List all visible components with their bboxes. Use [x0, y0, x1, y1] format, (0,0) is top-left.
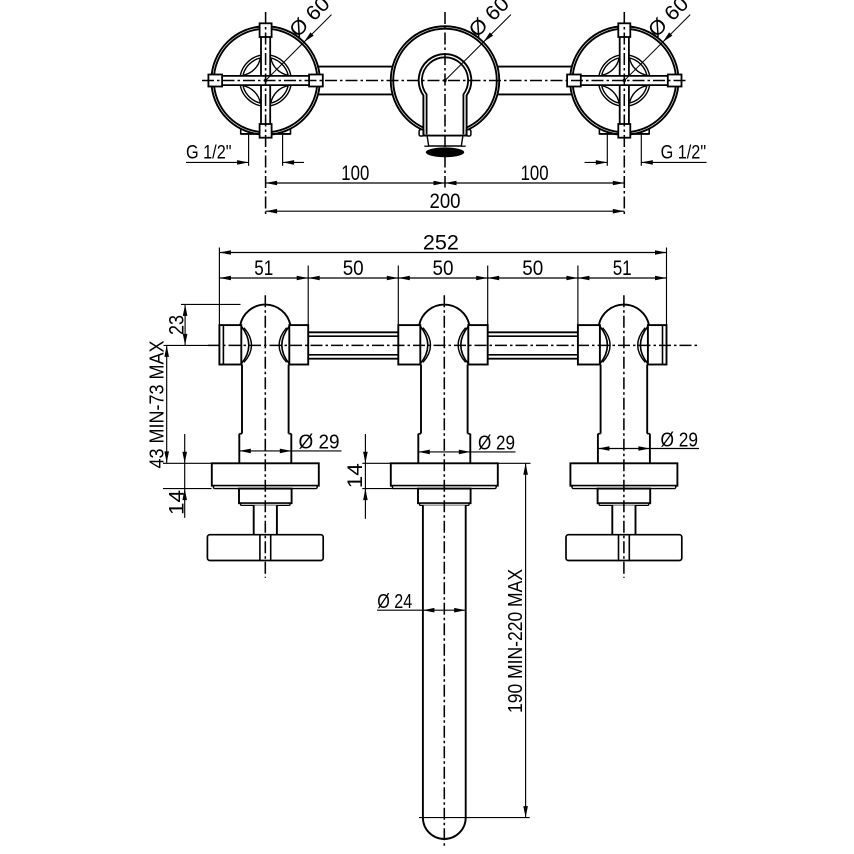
- right handle front spoke caps: [618, 23, 630, 37]
- right handle front handle petals: [630, 58, 648, 76]
- svg-text:200: 200: [430, 189, 461, 213]
- dimension 190 MIN-220 MAX: [498, 462, 531, 464]
- left valve hub: [239, 489, 292, 504]
- G 1/2 dimension right: [606, 135, 608, 166]
- right valve ball dome: [599, 305, 649, 326]
- dimension 14 left: [184, 434, 186, 518]
- left valve flange: [212, 463, 319, 485]
- svg-text:G 1/2": G 1/2": [186, 142, 232, 164]
- right handle front vertical spoke: [620, 36, 629, 125]
- lower view horizontal centerline: [164, 344, 209, 346]
- spout tube rounded end: [423, 818, 466, 839]
- dimension 100 left: [266, 182, 445, 184]
- spout escutcheon outer circle: [391, 26, 500, 135]
- right valve dia29 section: [598, 434, 650, 464]
- spout escutcheon inner circle: [393, 29, 497, 133]
- left valve handle bar side view: [207, 535, 323, 561]
- horizontal centerline front view: [202, 80, 688, 82]
- right valve shaft: [601, 365, 648, 434]
- right handle front handle ring inner: [601, 57, 647, 103]
- svg-text:G 1/2": G 1/2": [661, 142, 707, 164]
- diameter 60 leader right: [623, 79, 626, 82]
- connecting bar middle-right: [498, 66, 572, 68]
- svg-text:50: 50: [433, 256, 454, 280]
- spout tube inner walls: [422, 57, 468, 134]
- middle spout body fillets: [420, 326, 428, 364]
- middle spout body hub lip: [420, 503, 470, 505]
- svg-text:190 MIN-220 MAX: 190 MIN-220 MAX: [504, 569, 527, 713]
- middle spout body ball dome: [419, 305, 469, 326]
- left handle front vertical spoke: [261, 36, 270, 125]
- svg-text:51: 51: [613, 256, 632, 280]
- middle spout body flange: [391, 463, 498, 485]
- left handle front wall plate edge: [241, 133, 291, 135]
- dimension 43 MIN-73 MAX: [166, 345, 168, 463]
- svg-text:100: 100: [341, 161, 369, 185]
- dimension dia 29 middle: [418, 451, 515, 453]
- left valve ball dome: [240, 305, 290, 326]
- right handle front escutcheon outer circle: [570, 26, 679, 135]
- dimension 100 right: [445, 182, 624, 184]
- left flange extension lines: [163, 462, 212, 464]
- vertical centerline left handle: [265, 12, 267, 215]
- middle spout body shaft: [421, 365, 468, 434]
- right valve end cap seam: [662, 325, 664, 364]
- dimension 23: [181, 303, 241, 305]
- right handle front horizontal spoke: [580, 76, 669, 85]
- left handle front spoke caps: [260, 23, 272, 37]
- right handle front escutcheon inner circle: [573, 29, 677, 133]
- left valve stem: [254, 505, 277, 534]
- dimension dia 24: [377, 609, 466, 611]
- right handle front wall plate edge: [599, 133, 649, 135]
- right valve handle bar side view: [566, 535, 682, 561]
- spout tube front: [419, 54, 472, 136]
- svg-text:100: 100: [521, 161, 549, 185]
- diameter 60 leader left: [264, 79, 267, 82]
- right valve ball surface arcs: [603, 328, 611, 363]
- lower view horizontal tube right: [488, 331, 578, 333]
- left valve fillets: [241, 326, 248, 364]
- right valve left collar: [578, 325, 600, 364]
- svg-text:14: 14: [164, 490, 188, 515]
- connecting bar left-middle: [318, 66, 392, 68]
- dimension dia 29 right: [598, 448, 699, 450]
- right handle front handle ring outer: [599, 55, 650, 106]
- right valve flange lip: [572, 486, 676, 489]
- left valve right collar: [289, 325, 308, 364]
- svg-text:23: 23: [164, 315, 188, 335]
- lower view vertical centerline right: [623, 295, 625, 577]
- middle spout body flange lip: [392, 486, 496, 489]
- svg-text:43 MIN-73 MAX: 43 MIN-73 MAX: [145, 340, 168, 468]
- middle spout body dia29 section: [418, 434, 470, 464]
- svg-text:51: 51: [254, 256, 273, 280]
- spout slip collars: [419, 130, 423, 136]
- svg-text:252: 252: [423, 230, 459, 254]
- left valve flange lip: [213, 486, 317, 489]
- dimension dia 29 left: [239, 450, 341, 452]
- middle spout body hub: [418, 489, 471, 504]
- left handle front handle ring inner: [243, 57, 289, 103]
- left handle front escutcheon inner circle: [214, 29, 318, 133]
- middle spout body right collar: [468, 325, 487, 364]
- svg-text:50: 50: [522, 256, 543, 280]
- spout tube side view: [423, 505, 466, 817]
- dimension 252: [218, 248, 220, 326]
- spout tip cap: [427, 137, 463, 147]
- middle flange extension lines: [362, 462, 391, 464]
- dimension 200: [266, 210, 625, 212]
- left valve left collar: [219, 325, 241, 364]
- left valve hub lip: [241, 503, 291, 505]
- svg-text:Ø 29: Ø 29: [478, 432, 515, 455]
- left handle front horizontal spoke: [221, 76, 310, 85]
- vertical centerline right handle: [623, 12, 625, 215]
- left handle front handle petals: [271, 58, 289, 76]
- left valve shaft: [242, 365, 289, 434]
- vertical centerline spout: [444, 12, 446, 188]
- svg-text:Ø 29: Ø 29: [661, 428, 699, 451]
- right valve hub lip: [599, 503, 649, 505]
- left valve end cap seam: [222, 325, 224, 364]
- aerator black band: [426, 147, 464, 157]
- dimension 14 middle: [364, 434, 366, 519]
- left valve ball surface arcs: [244, 328, 252, 363]
- chain dimension 51 50 50 50 51: [307, 266, 309, 326]
- left valve dia29 section: [239, 434, 291, 464]
- lower view vertical centerline middle: [443, 295, 445, 846]
- lower view vertical centerline left: [264, 295, 266, 577]
- svg-text:Ø 29: Ø 29: [299, 431, 340, 454]
- left handle front handle ring outer: [240, 55, 291, 106]
- left handle front escutcheon outer circle: [211, 26, 320, 135]
- G 1/2 dimension left: [248, 135, 250, 166]
- diameter 60 leader middle: [443, 79, 446, 82]
- svg-text:14: 14: [343, 463, 367, 488]
- right valve fillets: [600, 326, 608, 364]
- aerator lip ticks: [424, 145, 428, 147]
- middle spout body ball surface arcs: [423, 328, 431, 363]
- svg-text:Ø 24: Ø 24: [377, 590, 412, 613]
- right valve flange: [570, 463, 677, 485]
- right valve hub: [598, 489, 651, 504]
- middle spout body left collar: [398, 325, 420, 364]
- spout shoulder: [424, 135, 467, 136]
- right valve stem: [612, 505, 635, 534]
- right valve right collar: [648, 325, 667, 364]
- lower view horizontal tube left: [308, 331, 398, 333]
- svg-text:50: 50: [343, 256, 364, 280]
